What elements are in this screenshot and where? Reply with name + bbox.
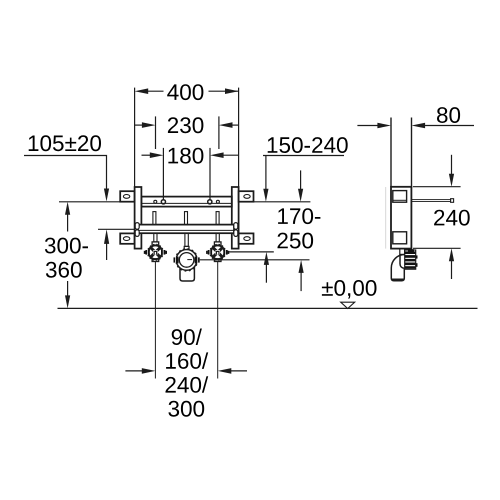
side box bottom inner bracket [393,232,407,244]
label 240/ [166,376,209,393]
label 90/ [172,329,202,346]
side box top inner bracket [393,191,407,203]
dim 230 extension line left [155,116,157,149]
dim 105±20 leader [24,156,109,202]
dim 300-360 vertical [65,202,70,309]
frame left post [135,187,142,249]
rail hole inner-right [208,200,212,204]
side wall line right [411,118,413,189]
label 300 [168,401,204,417]
left crossbar-level reference line [98,228,135,230]
flange slot upper-left [123,195,129,199]
label 170-250 line1 [278,208,320,224]
right valve body [210,245,226,261]
right valve stem [216,233,219,242]
dim 170-250 upper arrow [298,170,303,201]
rail hole inner-left [161,200,165,204]
dim 90/160/240/300 extension line right [217,262,219,379]
left valve wing right [161,250,167,255]
side anchor rod [411,200,450,202]
dim 240 arrows [449,155,454,279]
drain pipe [180,263,194,281]
side box top inner bracket line [393,199,407,201]
label 105±20 [29,135,101,151]
left valve wing left [144,250,150,255]
rail hole outer-left [154,200,157,203]
left valve body [148,245,164,261]
drain stem [185,233,188,246]
dim 90/160/240/300 arrows [125,368,247,374]
drain centre reference line [200,259,310,261]
dim 150-240 lower arrow [264,252,269,283]
right valve nut [214,242,221,248]
dim 240 extension line top [413,186,461,188]
label ±0,00 [322,280,377,299]
label 300-360 line1 [45,238,88,254]
drain ear right [195,256,200,263]
wall flange upper-right [239,191,254,202]
top rail inner lip line [141,202,231,204]
right reference line (fixing level) [254,201,311,203]
rail hole outer-right [216,200,219,203]
wall flange lower-left [120,233,134,243]
drain inner tick [187,259,192,261]
side drain elbow [391,255,404,281]
dim 400 extension line right [238,88,240,187]
stud right [216,212,219,225]
drain body inner ring [179,253,194,268]
label 150-240 [268,137,348,153]
left reference line (fixing level) [59,201,120,203]
dim 400 extension line left [134,88,136,187]
dim 105±20 lower arrow [104,229,109,260]
side wall line left [390,118,392,188]
drain ear left [174,256,179,263]
label 80 [437,107,460,123]
crossbar clip right upper [234,223,238,230]
crossbar clip left lower [135,230,139,237]
wall flange upper-left [120,191,134,202]
dim 180 arrows [142,152,239,158]
drain body outer ring [176,250,197,271]
label 240 side [434,210,470,226]
stud center [185,212,188,225]
label 300-360 line2 [46,262,82,278]
crossbar clip left upper [135,223,139,230]
dim 180 extension line right [209,148,211,200]
middle crossbar [138,225,234,234]
crossbar clip right lower [234,230,238,237]
side supply valve hatched block [405,249,418,269]
level symbol triangle [341,302,355,308]
valve centre reference line [227,251,274,253]
dim 180 extension line left [162,148,164,200]
right valve wing left [206,250,212,255]
side faint post line [385,187,387,249]
left valve stem [154,233,157,242]
stud left [153,212,156,225]
left valve outlet [152,259,159,262]
side anchor rod end cap [451,199,454,203]
wall flange lower-right [239,233,254,243]
label 160/ [166,352,208,369]
flange slot lower-right [244,237,250,241]
side drain neck [400,249,405,255]
right valve wing right [223,250,229,255]
dim 240 extension line bottom [413,247,461,249]
dim 90/160/240/300 extension line left [154,262,156,379]
dim 80 arrows [357,123,474,129]
label 230 [168,117,204,133]
dim 170-250 lower arrow [299,260,304,291]
dim 400 line + arrows [135,88,239,94]
drain collar [184,246,189,249]
dim 150-240 leader [263,156,344,202]
right valve outlet [214,259,221,262]
floor line ±0,00 [58,307,478,309]
dim 230 arrows [135,122,239,128]
flange slot upper-right [244,195,250,199]
middle crossbar inner line [138,229,234,231]
dim 230 extension line right [218,116,220,149]
flange slot lower-left [123,237,129,241]
frame right post [232,187,239,249]
drain body toothed ring [176,249,198,271]
top rail [141,197,231,207]
left valve nut [152,242,159,248]
label 170-250 line2 [278,233,314,249]
side frame box [391,187,411,249]
label 180 [168,148,203,164]
label 400 [167,84,203,100]
